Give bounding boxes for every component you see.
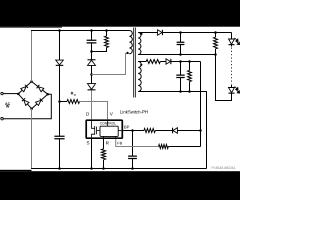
node BP cap tap [131,129,134,132]
node bleeder top [214,31,217,34]
transformer core [134,28,136,98]
node bulk cap return [58,167,61,170]
bridge node bottom [30,107,32,110]
svg-text:LinkSwitch-PH: LinkSwitch-PH [120,110,148,115]
svg-text:PI-6543-082211: PI-6543-082211 [211,166,235,170]
U1 internal V lead [107,120,109,126]
wire output rail to LED1 [231,33,233,40]
output capacitor C3 [177,42,185,44]
node bias cap bottom [179,90,182,93]
wire drain node to primary [92,54,130,75]
transformer primary winding [129,31,132,54]
wire clamp resistor to clamp node [92,48,107,52]
bridge node top [30,80,33,83]
LED2 emission arrows [235,86,240,93]
node bias resistor top [188,60,191,63]
wire bias bleed resistor top [189,62,191,71]
transformer bias winding [138,62,141,92]
DC+ top rail [31,30,129,32]
node BP cap return [131,167,134,170]
svg-text:S: S [87,141,90,146]
BP diode D9 [173,128,177,134]
U1 control block [100,126,118,136]
bridge node left [17,93,20,96]
svg-text:IN: IN [6,105,10,109]
wire rail to input diode [59,31,61,61]
wire R resistor to return [103,160,105,169]
wire rail to clamp cap [91,31,93,41]
bulk capacitor C2 [54,136,64,138]
U1 internal R lead [103,136,105,139]
node output cap top [179,31,182,34]
drain node [90,73,93,76]
bias capacitor C4 [176,75,184,77]
LED2 [229,88,235,93]
bias feed vertical [200,62,202,147]
U1 internal source lead [92,134,95,139]
svg-text:BP: BP [124,125,130,130]
bias resistor R3 [146,60,160,64]
bridge diode D2 (right to top) [37,85,44,92]
wire secondary top to output diode [138,32,157,34]
bias diode D8 [166,59,170,64]
wire BP cap bottom [132,159,134,169]
bridge diode D1 (left to top) [21,85,28,92]
wire bias cap bottom [180,78,182,92]
wire bridge top to DC+ rail [31,31,33,82]
bleeder resistor R2 [214,37,218,49]
wire bias top to resistor [138,61,146,63]
node output cap bottom [179,53,182,56]
secondary return rail [138,54,215,56]
wire bulk cap to return rail [59,139,61,169]
output positive rail [163,32,232,34]
LED1 [229,39,235,44]
wire bias cap top [180,62,182,76]
AC input terminal top [1,92,3,94]
wire LED2 return [216,55,232,101]
wire S pin to return [91,139,93,169]
wire AC bottom terminal to bridge right corner [3,94,51,119]
bias bleed resistor R4 [188,70,192,81]
bridge edge bottom-right [32,94,48,109]
wire clamp cap to clamp node [91,43,93,52]
secondary polarity dot [140,33,142,35]
LED string dotted line [231,48,233,85]
node S return [90,167,93,170]
BP series resistor R5 [144,129,155,133]
bias polarity dot [140,64,142,66]
output diode D7 [158,30,162,35]
BP capacitor C5 [128,156,137,158]
wire tap to RV [60,101,68,103]
U1 internal BP lead [118,129,122,131]
AC input terminal bottom [1,118,3,120]
wire LED1 to dotted [231,45,233,47]
wire zener to drain node [91,65,93,83]
U1 internal MOSFET [95,126,100,135]
FB resistor R6 [159,145,169,149]
bridge diode D3 (bottom to left) [22,98,29,105]
resistor RV [67,100,80,104]
wire BP diode to bias vertical [177,130,200,132]
bridge edge left-bottom [18,94,31,109]
bridge diode D4 (bottom to right) [36,98,43,105]
wire rail to clamp resistor [106,31,108,37]
node bias cap top [179,60,182,63]
wire blocking diode to D pin [91,90,93,119]
U1 internal drain lead [92,120,95,128]
primary return bottom rail [31,168,206,170]
clamp capacitor C1 [87,40,97,43]
top black band [0,0,240,27]
node V-sense tap [58,100,61,103]
wire clamp node to zener [91,52,93,60]
wire dotted to LED2 [231,85,233,88]
svg-text:V: V [74,93,76,97]
wire RV to V pin [80,102,108,120]
blocking diode D6 [88,84,96,90]
node rail-clamp cap [90,29,93,32]
node bleeder bottom [214,53,217,56]
clamp zener VR1 [88,60,96,65]
bottom black band [0,171,240,200]
wire AC top terminal to bridge [3,93,18,95]
clamp resistor R1 [105,36,109,48]
primary polarity dot [126,52,128,54]
wire bleeder bottom [215,49,217,55]
node bias-BP junction [199,129,202,132]
bridge node right [46,93,49,96]
wire FB pin [116,139,159,147]
LED1 emission arrows [235,38,240,45]
node rail-clamp resistor [105,29,108,32]
wire BP resistor to diode [155,130,177,132]
wire input diode to bulk cap [59,66,61,137]
wire BP cap [132,131,134,157]
U1 internal FB lead [115,136,117,139]
node bias resistor bottom [188,90,191,93]
wire output cap [180,33,182,43]
wire bias bleed resistor bottom [189,82,191,92]
svg-text:FB: FB [117,141,122,146]
wire R pin [103,139,105,149]
wire bridge bottom to return rail [31,109,33,169]
op IC U1 LinkSwitch-PH body [86,120,122,138]
bridge edge top-right [32,82,48,95]
node R return [102,167,105,170]
input diode D5 [56,60,64,65]
wire FB resistor to bias vertical [168,146,200,148]
node rail-input diode [58,29,61,32]
bias return rail [138,92,206,169]
svg-text:CONTROL: CONTROL [100,122,117,126]
wire output cap bottom [180,45,182,55]
wire bias diode to bias node [171,61,201,63]
clamp node [90,50,93,53]
R pin resistor R7 [101,149,105,160]
wire bleeder top [215,33,217,38]
wire bias resistor to diode [160,61,166,63]
transformer secondary winding [138,33,141,55]
bridge edge left-top [18,82,31,94]
wire BP pin [123,130,144,132]
